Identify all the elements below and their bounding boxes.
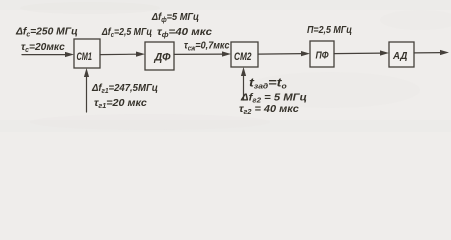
label delta f_g2 = 5 MHz <box>240 92 307 104</box>
svg-text:Δfг1=247,5МГц: Δfг1=247,5МГц <box>91 83 158 95</box>
wire CM2 to PF <box>258 53 303 56</box>
paper background <box>0 0 451 132</box>
svg-text:ДФ: ДФ <box>154 51 171 63</box>
svg-text:П=2,5 МГц: П=2,5 МГц <box>307 24 352 36</box>
label P = 2,5 MHz <box>307 24 352 36</box>
wire output <box>414 52 442 54</box>
label tau_szh = 0,7 mks <box>184 40 230 53</box>
wire vertical into CM2 <box>243 72 245 100</box>
label delta f_f = 5 MHz <box>151 12 199 24</box>
block AD (АД amplitude detector) <box>389 42 414 67</box>
label tau_g2 = 40 mks <box>239 103 299 116</box>
svg-text:Δfс=2,5 МГц: Δfс=2,5 МГц <box>101 26 152 39</box>
svg-text:ПФ: ПФ <box>316 50 329 62</box>
block PF (ПФ bandpass filter) <box>310 41 334 67</box>
block CM2 (СМ2 mixer) <box>231 42 258 67</box>
label tau_g1 = 20 mks <box>94 97 147 110</box>
block DF (ДФ dispersive filter) <box>145 42 174 70</box>
wire PF to AD <box>334 52 382 55</box>
label tau_f = 40 mks <box>157 26 212 38</box>
svg-text:Δfс=250 МГц: Δfс=250 МГц <box>15 26 78 38</box>
label delta f_g1 = 247,5 MHz <box>91 83 158 95</box>
wire CM1 to DF <box>100 53 138 55</box>
label delta f_c = 250 MHz <box>15 26 78 38</box>
wire DF to CM2 <box>174 53 224 55</box>
label tau_c = 20 mks <box>21 42 65 54</box>
label delta f_c = 2,5 MHz <box>101 26 152 39</box>
block CM1 (СМ1 mixer) <box>74 39 100 68</box>
svg-text:Δfф=5 МГц: Δfф=5 МГц <box>151 12 199 24</box>
svg-text:АД: АД <box>392 51 408 62</box>
svg-text:СМ2: СМ2 <box>234 51 252 63</box>
label t_zad = t_o <box>249 76 287 90</box>
svg-text:СМ1: СМ1 <box>77 51 93 63</box>
wire input <box>22 54 67 56</box>
wire vertical into CM1 <box>86 73 88 112</box>
